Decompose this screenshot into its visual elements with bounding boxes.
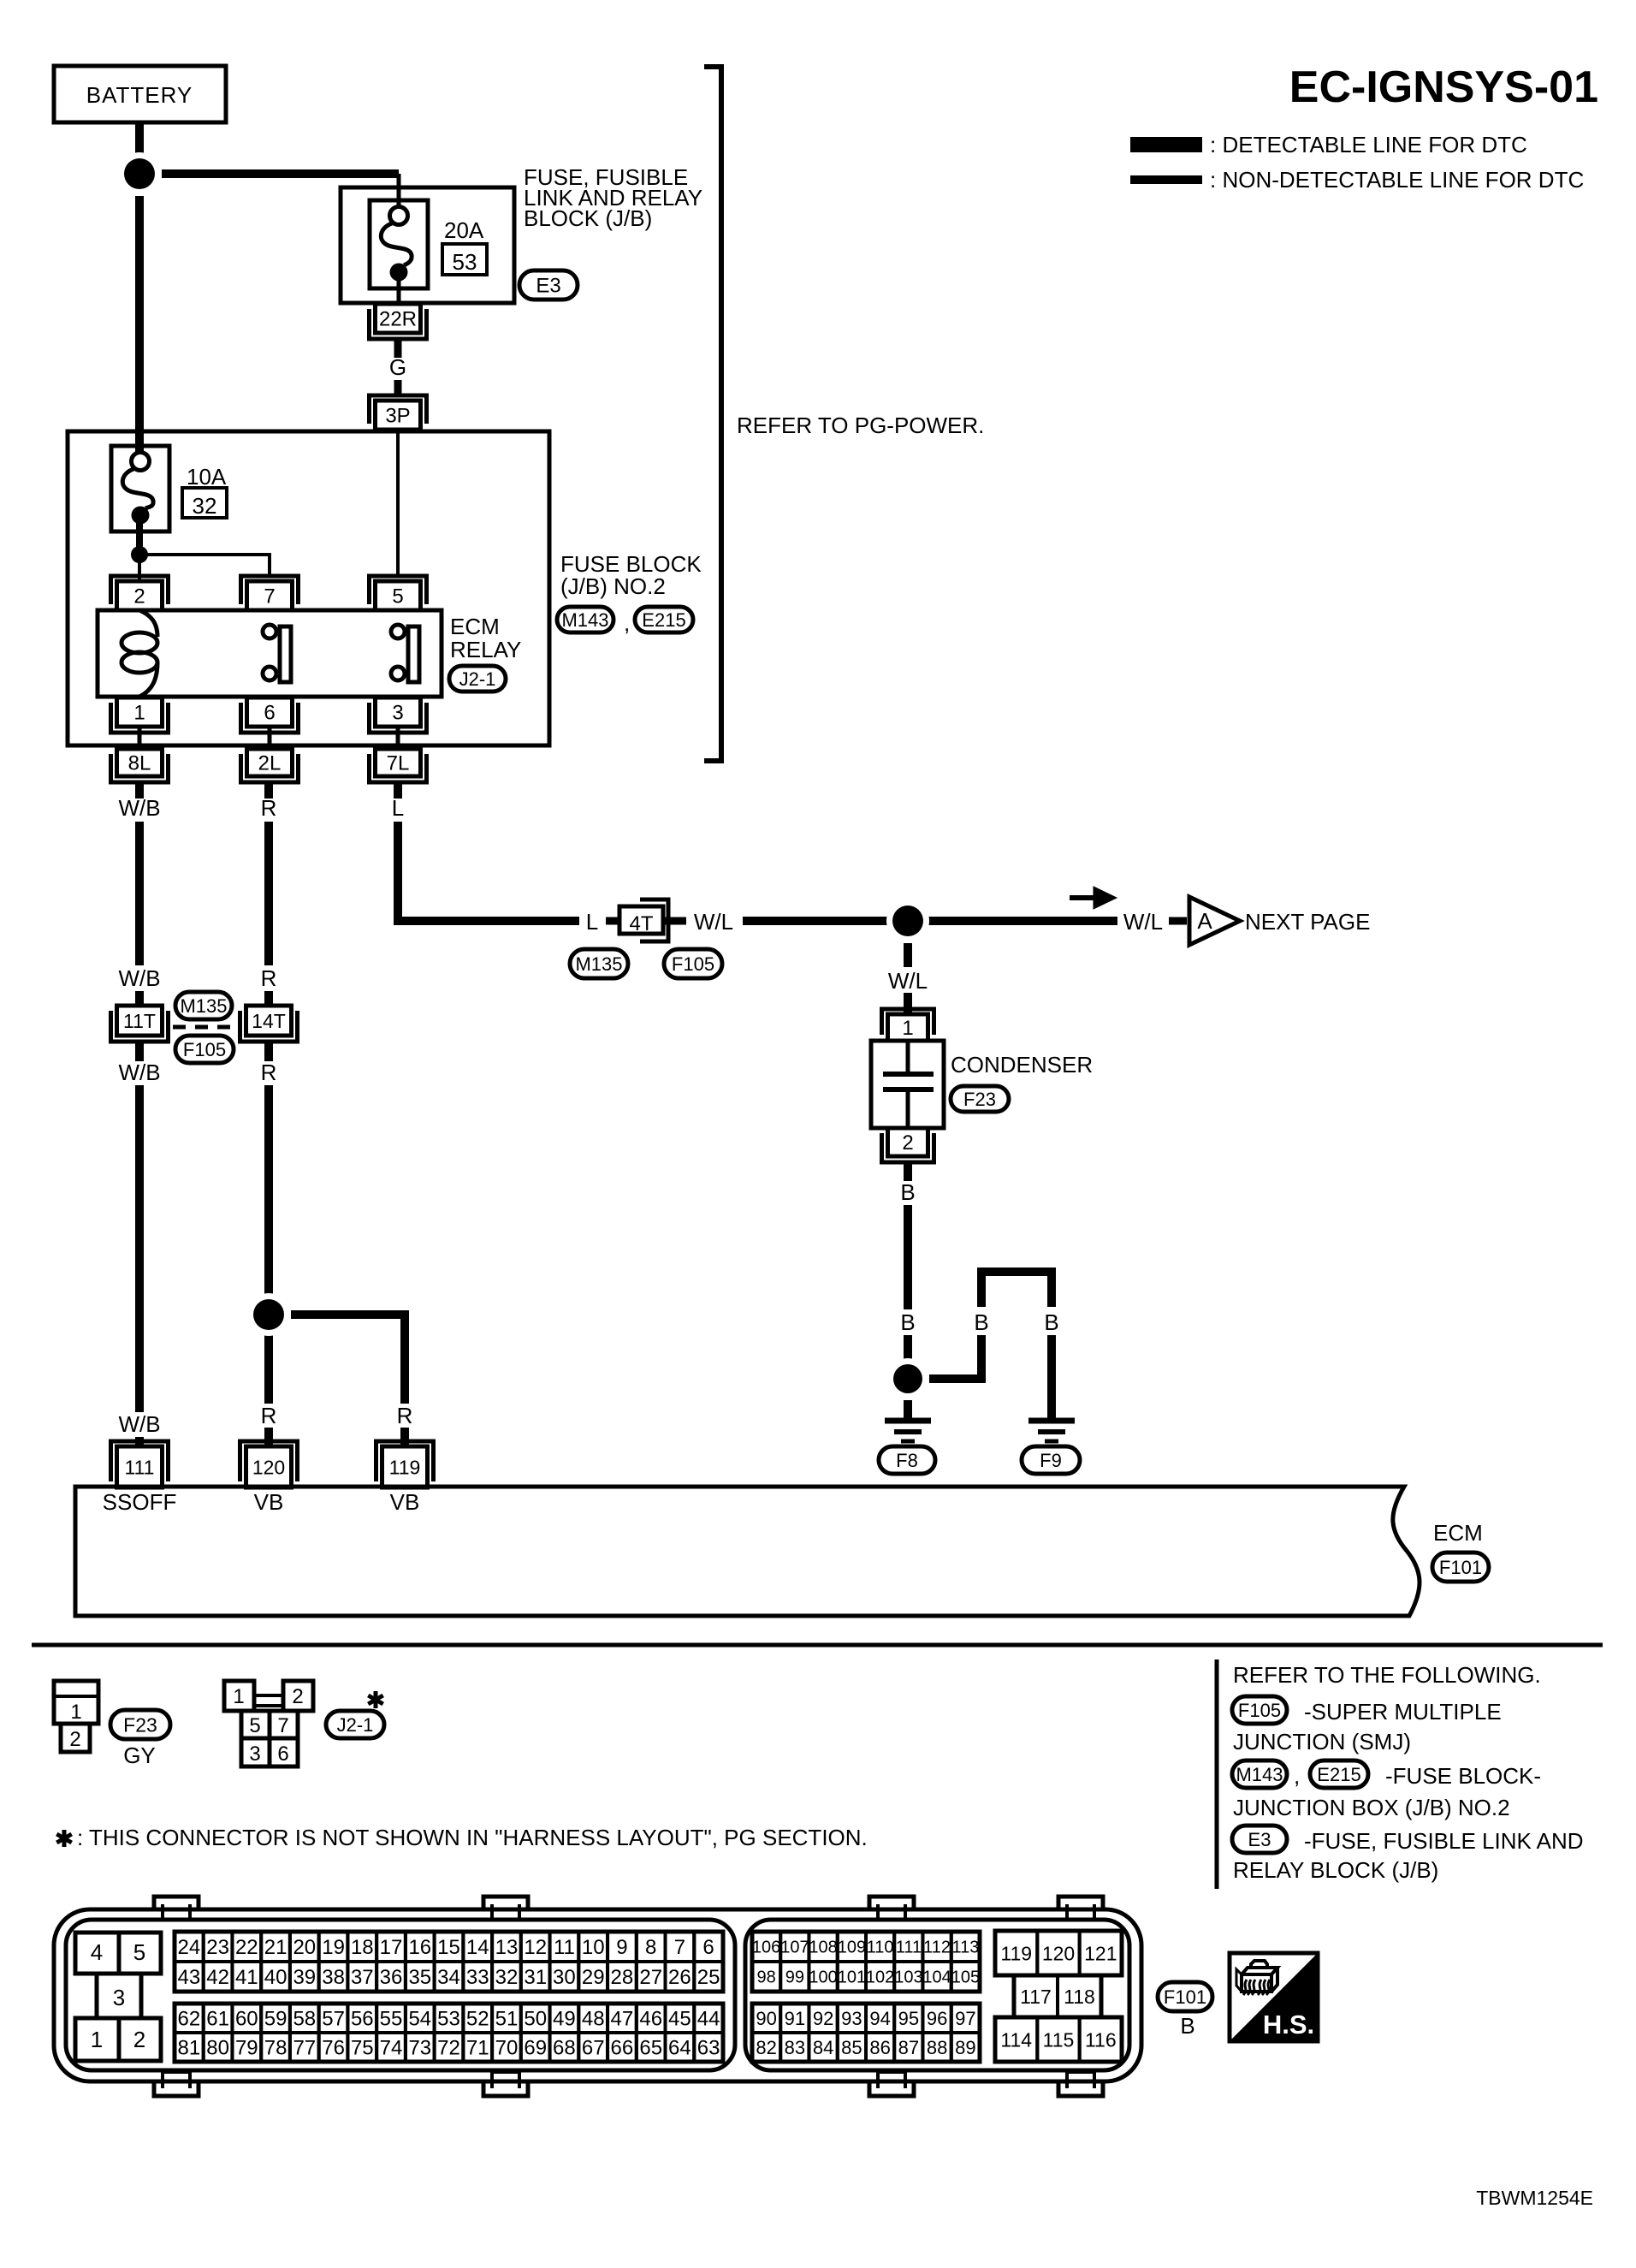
connector 120 xyxy=(240,1441,298,1481)
svg-text:28: 28 xyxy=(611,1966,634,1989)
svg-text:62: 62 xyxy=(178,2008,201,2031)
svg-text:: NON-DETECTABLE LINE FOR DTC: : NON-DETECTABLE LINE FOR DTC xyxy=(1210,167,1584,193)
capacitor symbol xyxy=(906,1041,910,1074)
wire W/B 2 xyxy=(135,822,144,965)
svg-text:70: 70 xyxy=(495,2037,519,2060)
svg-text:,: , xyxy=(1294,1763,1300,1789)
svg-text:56: 56 xyxy=(351,2008,374,2031)
relay contact pin7 bar xyxy=(280,626,291,682)
svg-text:BLOCK (J/B): BLOCK (J/B) xyxy=(524,205,652,231)
svg-text:: DETECTABLE LINE FOR DTC: : DETECTABLE LINE FOR DTC xyxy=(1210,132,1527,157)
svg-text:J2-1: J2-1 xyxy=(337,1714,374,1736)
svg-text:68: 68 xyxy=(553,2037,576,2060)
svg-text:2L: 2L xyxy=(258,752,282,775)
svg-text:72: 72 xyxy=(437,2037,460,2060)
wire bridge right to ground F9 xyxy=(1047,1335,1056,1419)
junction dot below 10A fuse xyxy=(131,546,148,563)
svg-text:M143: M143 xyxy=(1236,1764,1283,1785)
svg-text:94: 94 xyxy=(869,2008,890,2029)
relay contact pin5 circles xyxy=(391,625,405,638)
svg-text:7L: 7L xyxy=(387,752,410,775)
svg-text:18: 18 xyxy=(351,1936,374,1959)
svg-text:44: 44 xyxy=(697,2008,720,2031)
ECM connector tab bottom xyxy=(869,2080,914,2096)
H.S. connector icon xyxy=(1242,1974,1271,1992)
ECM connector grid right top rows 106-113 98-105 xyxy=(752,1932,780,1962)
fuse 10A symbol xyxy=(111,446,169,531)
svg-text:51: 51 xyxy=(495,2008,519,2031)
relay contact pin5 bar xyxy=(408,626,419,682)
dashed line 11T-14T xyxy=(173,1025,240,1030)
svg-text:-FUSE BLOCK-: -FUSE BLOCK- xyxy=(1385,1763,1541,1789)
svg-text:35: 35 xyxy=(408,1966,431,1989)
svg-text:VB: VB xyxy=(390,1489,420,1515)
wire G upper xyxy=(394,338,402,358)
svg-text:50: 50 xyxy=(524,2008,547,2031)
connector F101 oval xyxy=(1432,1553,1489,1582)
svg-text:93: 93 xyxy=(841,2008,862,2029)
refer to PG-POWER bracket xyxy=(704,67,721,761)
svg-text:M135: M135 xyxy=(180,995,227,1017)
ECM box xyxy=(75,1487,1420,1616)
svg-text:46: 46 xyxy=(639,2008,662,2031)
svg-text:R: R xyxy=(261,795,277,821)
wire R 1 xyxy=(264,782,273,799)
svg-text:61: 61 xyxy=(206,2008,229,2031)
svg-text:107: 107 xyxy=(780,1938,809,1957)
ECM connector tab top xyxy=(869,1897,914,1911)
svg-text:12: 12 xyxy=(524,1936,547,1959)
svg-text:91: 91 xyxy=(785,2008,805,2029)
note this connector is not shown xyxy=(62,1830,67,1847)
svg-text:R: R xyxy=(261,1060,277,1085)
svg-text:20A: 20A xyxy=(444,217,484,243)
wire bridge left to dot xyxy=(929,1335,981,1379)
ECM relay box xyxy=(98,610,442,697)
svg-text:77: 77 xyxy=(293,2037,316,2060)
wire pin6 to 2L thin xyxy=(268,727,272,749)
connector 8L xyxy=(111,754,169,782)
svg-text:R: R xyxy=(261,965,277,991)
svg-text:SSOFF: SSOFF xyxy=(103,1489,177,1515)
svg-text:TBWM1254E: TBWM1254E xyxy=(1476,2187,1593,2209)
svg-text:87: 87 xyxy=(898,2037,919,2058)
svg-text:73: 73 xyxy=(408,2037,431,2060)
svg-text:20: 20 xyxy=(293,1936,316,1959)
svg-text:8L: 8L xyxy=(128,752,151,775)
connector M135 oval xyxy=(175,992,232,1019)
ECM connector grid 119 120 121 xyxy=(995,1931,1037,1975)
svg-text:112: 112 xyxy=(923,1938,951,1957)
svg-text:10: 10 xyxy=(582,1936,605,1959)
svg-text:45: 45 xyxy=(668,2008,691,2031)
svg-text:RELAY: RELAY xyxy=(450,637,521,662)
ECM connector grid right bottom rows 90-97 82-89 xyxy=(752,2004,780,2033)
connector 3P xyxy=(370,395,427,424)
svg-text:76: 76 xyxy=(322,2037,345,2060)
svg-text:F9: F9 xyxy=(1040,1450,1062,1471)
svg-text:F8: F8 xyxy=(896,1450,918,1471)
arrow next page xyxy=(1070,895,1094,900)
svg-text:26: 26 xyxy=(668,1966,691,1989)
svg-text:103: 103 xyxy=(894,1968,922,1987)
connector M143 oval xyxy=(557,607,613,632)
svg-text:E215: E215 xyxy=(642,609,685,631)
ECM connector outline outer xyxy=(54,1909,1141,2081)
wire B 2 xyxy=(904,1205,912,1309)
ECM connector outline inner right xyxy=(745,1920,1129,2070)
relay pin 5 xyxy=(370,576,427,604)
svg-text:86: 86 xyxy=(869,2037,890,2058)
condenser pin 2 xyxy=(882,1133,934,1162)
svg-text:53: 53 xyxy=(453,249,477,275)
svg-text:1: 1 xyxy=(233,1685,244,1708)
svg-text:114: 114 xyxy=(1000,2028,1032,2051)
svg-text:108: 108 xyxy=(809,1938,837,1957)
svg-text:14: 14 xyxy=(466,1936,489,1959)
fuse number 32 box xyxy=(182,488,227,518)
connector J2-1 oval legend xyxy=(326,1711,384,1738)
svg-text:54: 54 xyxy=(408,2008,431,2031)
svg-text:116: 116 xyxy=(1085,2028,1117,2051)
relay coil xyxy=(139,610,157,637)
svg-text:-FUSE, FUSIBLE LINK AND: -FUSE, FUSIBLE LINK AND xyxy=(1304,1828,1584,1854)
wire to condenser pin1 xyxy=(904,993,912,1014)
fuse fusible link block E3 box xyxy=(341,187,514,303)
svg-text:24: 24 xyxy=(178,1936,201,1959)
wire 3P to pin 5 thin xyxy=(396,430,400,576)
ECM connector grid left bottom rows 62-44 81-63 xyxy=(175,2004,204,2033)
connector 22R xyxy=(370,309,427,339)
svg-text:104: 104 xyxy=(922,1968,951,1987)
svg-text:99: 99 xyxy=(785,1968,804,1987)
svg-text:13: 13 xyxy=(495,1936,519,1959)
svg-text:7: 7 xyxy=(277,1714,288,1737)
svg-text:66: 66 xyxy=(611,2037,634,2060)
svg-text:29: 29 xyxy=(582,1966,605,1989)
wire W/B 6 xyxy=(135,1437,144,1446)
svg-text:1: 1 xyxy=(91,2027,103,2052)
wire branch junction to pin 7 thin xyxy=(139,555,270,576)
wire 20A fuse to 22R xyxy=(397,274,401,305)
svg-text:71: 71 xyxy=(466,2037,489,2060)
svg-text:17: 17 xyxy=(380,1936,403,1959)
svg-text:43: 43 xyxy=(178,1966,201,1989)
svg-text:48: 48 xyxy=(582,2008,605,2031)
connector M135 oval near 4T xyxy=(570,949,628,978)
svg-text:R: R xyxy=(261,1403,277,1428)
junction dot W/L xyxy=(886,899,929,942)
svg-text:B: B xyxy=(1044,1309,1058,1335)
svg-text:19: 19 xyxy=(322,1936,345,1959)
wire R 5 xyxy=(264,1085,273,1363)
svg-text:38: 38 xyxy=(322,1966,345,1989)
svg-text:W/L: W/L xyxy=(888,968,928,994)
svg-text:1: 1 xyxy=(133,702,145,725)
svg-text:52: 52 xyxy=(466,2008,489,2031)
svg-text:120: 120 xyxy=(252,1456,285,1478)
svg-text:21: 21 xyxy=(264,1936,287,1959)
ground jumper bridge xyxy=(981,1272,1052,1307)
svg-text:ECM: ECM xyxy=(450,614,500,639)
ground symbol F9 xyxy=(1028,1418,1075,1424)
svg-text:49: 49 xyxy=(553,2008,576,2031)
svg-text:M135: M135 xyxy=(575,953,622,975)
svg-text:3: 3 xyxy=(392,702,403,725)
svg-text:3P: 3P xyxy=(385,405,410,428)
svg-text:81: 81 xyxy=(178,2037,201,2060)
connector J2-1 oval xyxy=(449,666,506,692)
relay pin 7 xyxy=(241,576,299,604)
svg-text:8: 8 xyxy=(645,1936,656,1959)
svg-text:B: B xyxy=(900,1309,915,1335)
svg-text:1: 1 xyxy=(70,1701,81,1724)
svg-text:2: 2 xyxy=(133,585,145,609)
connector E3 oval xyxy=(519,270,578,300)
ECM connector tab top xyxy=(1058,1897,1103,1911)
svg-text:96: 96 xyxy=(927,2008,947,2029)
wire R 6 xyxy=(264,1428,273,1446)
svg-text:31: 31 xyxy=(524,1966,547,1989)
relay contact pin7 circles xyxy=(263,625,276,638)
svg-text:11: 11 xyxy=(554,1936,575,1959)
wire B 1 xyxy=(904,1162,912,1181)
relay pin 6 xyxy=(241,703,299,733)
junction dot B xyxy=(887,1358,928,1399)
svg-text:47: 47 xyxy=(611,2008,634,2031)
wire W/B 4 xyxy=(135,1042,144,1061)
svg-text:117: 117 xyxy=(1020,1986,1052,2008)
svg-text:14T: 14T xyxy=(252,1010,286,1032)
svg-text:2: 2 xyxy=(902,1131,913,1155)
connector 119 xyxy=(376,1441,434,1481)
connector 7L xyxy=(370,754,427,782)
svg-text:BATTERY: BATTERY xyxy=(86,82,193,108)
svg-text:109: 109 xyxy=(838,1938,866,1957)
svg-text:89: 89 xyxy=(955,2037,975,2058)
svg-text:110: 110 xyxy=(867,1938,894,1957)
connector F9 oval xyxy=(1022,1446,1080,1474)
svg-text:F105: F105 xyxy=(1238,1700,1281,1721)
svg-text:5: 5 xyxy=(392,585,403,609)
svg-text:W/B: W/B xyxy=(118,795,160,821)
battery box xyxy=(54,66,226,122)
svg-text:78: 78 xyxy=(264,2037,287,2060)
svg-text:118: 118 xyxy=(1064,1986,1095,2008)
svg-text:22: 22 xyxy=(235,1936,258,1959)
fuse block J/B no.2 box xyxy=(68,431,549,745)
legend non-detectable line sample xyxy=(1130,175,1202,184)
connector E215 oval xyxy=(635,607,693,632)
svg-text:88: 88 xyxy=(927,2037,947,2058)
svg-text:4T: 4T xyxy=(629,912,653,935)
svg-text:F105: F105 xyxy=(672,953,714,975)
svg-text:W/L: W/L xyxy=(1123,909,1163,935)
svg-text:34: 34 xyxy=(437,1966,460,1989)
svg-text:119: 119 xyxy=(389,1456,421,1478)
svg-text:W/B: W/B xyxy=(118,965,160,991)
svg-text:REFER TO THE FOLLOWING.: REFER TO THE FOLLOWING. xyxy=(1233,1662,1541,1688)
svg-text:42: 42 xyxy=(206,1966,229,1989)
ECM connector tab bottom xyxy=(483,2080,528,2096)
connector F101 oval bottom xyxy=(1158,1982,1212,2011)
svg-text:63: 63 xyxy=(697,2037,720,2060)
connector M143 oval refer xyxy=(1232,1760,1287,1788)
wire R 4 xyxy=(264,1042,273,1061)
connector F105 oval refer xyxy=(1232,1696,1287,1724)
svg-text:65: 65 xyxy=(639,2037,662,2060)
svg-text:E3: E3 xyxy=(1248,1829,1271,1850)
svg-text:6: 6 xyxy=(277,1743,288,1766)
svg-text:7: 7 xyxy=(264,585,275,609)
svg-text:9: 9 xyxy=(616,1936,627,1959)
svg-text:NEXT PAGE: NEXT PAGE xyxy=(1245,909,1370,935)
connector F23 oval xyxy=(951,1086,1009,1112)
wire pin3 to 7L thin xyxy=(396,727,400,749)
svg-text:121: 121 xyxy=(1084,1942,1117,1964)
H.S. view box xyxy=(1230,1953,1318,2041)
svg-text:64: 64 xyxy=(668,2037,691,2060)
svg-text:(J/B) NO.2: (J/B) NO.2 xyxy=(560,573,666,599)
svg-text:ECM: ECM xyxy=(1433,1520,1483,1546)
svg-text:4: 4 xyxy=(91,1939,103,1965)
svg-text:85: 85 xyxy=(841,2037,862,2058)
junction dot R xyxy=(247,1293,290,1336)
wire dot to ground F8 xyxy=(904,1400,912,1419)
svg-text:92: 92 xyxy=(813,2008,833,2029)
svg-text:95: 95 xyxy=(898,2008,919,2029)
svg-text:5: 5 xyxy=(249,1714,260,1737)
junction dot battery xyxy=(118,152,161,195)
connector F105 oval near 4T xyxy=(664,949,722,978)
svg-text:106: 106 xyxy=(752,1938,780,1957)
svg-text:G: G xyxy=(389,354,406,380)
relay pin 1 xyxy=(111,703,169,733)
svg-text:37: 37 xyxy=(351,1966,374,1989)
svg-text:A: A xyxy=(1197,908,1212,934)
svg-text:16: 16 xyxy=(408,1936,431,1959)
connector F23 cavity diagram xyxy=(54,1681,98,1724)
svg-text:W/B: W/B xyxy=(118,1411,160,1437)
svg-text:111: 111 xyxy=(125,1456,155,1478)
svg-text:90: 90 xyxy=(756,2008,776,2029)
connector 2L xyxy=(241,754,299,782)
svg-text:98: 98 xyxy=(756,1968,775,1987)
connector F105 oval xyxy=(175,1036,234,1063)
svg-text:101: 101 xyxy=(838,1968,866,1987)
svg-text:120: 120 xyxy=(1042,1942,1075,1964)
ECM connector tab bottom xyxy=(154,2080,199,2096)
wire L 1 xyxy=(394,782,402,799)
svg-text:97: 97 xyxy=(955,2008,975,2029)
fuse number 53 box xyxy=(442,244,487,275)
svg-text:7: 7 xyxy=(674,1936,685,1959)
wire battery to fuse 20A horizontal xyxy=(162,169,399,178)
svg-text:L: L xyxy=(586,909,598,935)
ECM connector tab top xyxy=(154,1897,199,1911)
svg-text:,: , xyxy=(624,610,630,636)
svg-text:REFER TO PG-POWER.: REFER TO PG-POWER. xyxy=(737,413,984,438)
svg-text:115: 115 xyxy=(1043,2028,1075,2051)
svg-text:59: 59 xyxy=(264,2008,287,2031)
svg-text:: THIS CONNECTOR IS NOT SHOWN: : THIS CONNECTOR IS NOT SHOWN IN "HARNES… xyxy=(77,1825,868,1850)
svg-text:H.S.: H.S. xyxy=(1263,2010,1314,2039)
ECM connector key pins 4 5 3 1 2 xyxy=(75,1933,119,1974)
wire junction to relay pin 2 thin xyxy=(138,555,141,581)
svg-text:L: L xyxy=(392,795,404,821)
wire battery down xyxy=(135,122,144,164)
svg-text:69: 69 xyxy=(524,2037,547,2060)
svg-text:F101: F101 xyxy=(1439,1557,1482,1578)
svg-text:111: 111 xyxy=(896,1938,922,1957)
connector 14T xyxy=(240,1011,298,1042)
relay pin 2 xyxy=(111,576,169,604)
refer block left border xyxy=(1215,1659,1219,1889)
svg-text:32: 32 xyxy=(495,1966,519,1989)
svg-text:F23: F23 xyxy=(123,1713,157,1736)
ground symbol F8 xyxy=(885,1418,931,1424)
svg-text:F23: F23 xyxy=(963,1089,996,1110)
wire B to dot xyxy=(904,1335,912,1396)
ECM connector grid 117 118 xyxy=(1014,1975,1058,2017)
wire W/B 1 xyxy=(135,782,144,799)
svg-text:10A: 10A xyxy=(187,464,227,490)
connector 111 xyxy=(111,1441,169,1481)
svg-text:39: 39 xyxy=(293,1966,316,1989)
svg-text:E3: E3 xyxy=(536,275,560,298)
legend detectable line sample xyxy=(1130,137,1202,152)
wire W/L stub to A xyxy=(1169,917,1187,925)
wire W/B 3 xyxy=(135,991,144,1006)
svg-text:M143: M143 xyxy=(561,609,608,631)
svg-text:100: 100 xyxy=(809,1968,837,1987)
wire R branch horizontal xyxy=(291,1315,405,1404)
ECM connector outline inner left xyxy=(66,1920,735,2070)
svg-text:2: 2 xyxy=(133,2027,145,2052)
connector 4T xyxy=(640,899,668,941)
condenser body xyxy=(871,1041,944,1128)
connector J2-1 cavity diagram xyxy=(254,1695,283,1706)
svg-text:53: 53 xyxy=(437,2008,460,2031)
wire battery into 10A fuse xyxy=(135,196,144,454)
wire R 2 xyxy=(264,822,273,965)
wire into 20A fuse thin xyxy=(397,174,401,208)
wire W/L condenser xyxy=(904,943,912,967)
asterisk J2-1 xyxy=(374,1691,378,1708)
fuse 20A symbol xyxy=(370,200,428,288)
wire R branch 2 xyxy=(400,1428,409,1446)
svg-text:B: B xyxy=(1180,2013,1194,2039)
ECM connector tab top xyxy=(483,1897,528,1911)
svg-text:JUNCTION (SMJ): JUNCTION (SMJ) xyxy=(1233,1729,1411,1754)
svg-text:-SUPER MULTIPLE: -SUPER MULTIPLE xyxy=(1304,1699,1502,1725)
svg-text:105: 105 xyxy=(951,1968,980,1987)
svg-text:3: 3 xyxy=(113,1985,125,2010)
svg-text:80: 80 xyxy=(206,2037,229,2060)
wire 10A fuse to junction xyxy=(136,517,143,552)
condenser pin 1 xyxy=(882,1009,934,1035)
wire pin1 to 8L thin xyxy=(138,727,142,749)
svg-text:79: 79 xyxy=(235,2037,258,2060)
svg-text:6: 6 xyxy=(702,1936,714,1959)
svg-text:JUNCTION BOX (J/B) NO.2: JUNCTION BOX (J/B) NO.2 xyxy=(1233,1795,1510,1820)
ECM connector grid 114 115 116 xyxy=(995,2017,1037,2062)
ECM connector tab bottom xyxy=(1058,2080,1103,2096)
wire L 2 with elbow xyxy=(398,822,579,921)
svg-text:23: 23 xyxy=(206,1936,229,1959)
svg-text:30: 30 xyxy=(553,1966,576,1989)
relay pin 3 xyxy=(370,703,427,733)
